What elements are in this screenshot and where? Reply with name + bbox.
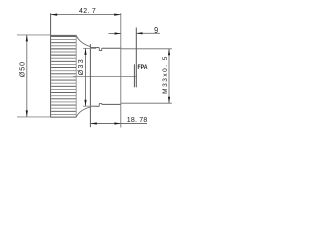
dimension phi50 top extension line [17,34,50,36]
dimension M33x0.5 line [168,49,170,103]
knob right face (also 18.78 left extension line) [89,44,91,127]
dimension phi33 top extension line [83,47,96,49]
end face / 9-dim right extension line [135,28,137,88]
dimension phi50 top arrow [26,35,28,42]
dimension 42.7 line [51,14,121,16]
dimension phi50 bottom arrow [26,110,28,117]
svg-text:9: 9 [154,25,158,35]
dimension phi33 top arrow [84,48,86,55]
knurl top edge [50,34,76,36]
knurl band boundary line [75,35,77,117]
slot left edge [133,64,135,87]
svg-text:Ø33: Ø33 [78,58,85,75]
section B top edge [102,47,121,49]
neck top edge [90,47,99,49]
dimension 18.78 right arrow [114,122,120,124]
svg-text:FPA: FPA [138,65,149,72]
svg-text:M33x0. 5: M33x0. 5 [162,55,169,94]
dimension 18.78 line left arrow [90,123,120,125]
dimension 18.78 tail [121,123,147,125]
dimension M33x0.5 bottom arrow [168,97,170,104]
thread start line / extension line (42.7, 9, 18.78) [120,13,122,127]
thread top edge + M33 top extension line [121,48,172,50]
dimension phi33 bottom extension line [83,105,96,107]
relief groove [99,48,101,51]
section B bottom edge [102,103,121,105]
dimension phi33 line [85,48,87,106]
dimension phi50 line [26,35,28,117]
dimension phi33 bottom arrow [84,100,86,107]
dimension 9 left arrow+tail [109,33,121,35]
bottom chamfer curve [76,107,90,117]
dimension M33x0.5 top arrow [168,49,170,56]
svg-text:18. 78: 18. 78 [127,117,148,124]
knurl fill lines [51,36,76,114]
dimension 42.7 left arrow [51,14,58,16]
knurl bottom edge [50,116,76,118]
top chamfer curve [76,35,90,46]
neck bottom edge [90,105,99,107]
dimension phi50 bottom extension line [17,116,50,118]
left face (also 42.7 left extension line) [50,13,52,117]
svg-text:Ø50: Ø50 [19,61,26,77]
svg-text:42. 7: 42. 7 [79,8,96,15]
centerline [73,75,137,77]
thread bottom edge + M33 bottom extension line [121,102,172,104]
dimension 42.7 right arrow [114,14,121,16]
dimension 9 right arrow+tail [136,32,160,34]
